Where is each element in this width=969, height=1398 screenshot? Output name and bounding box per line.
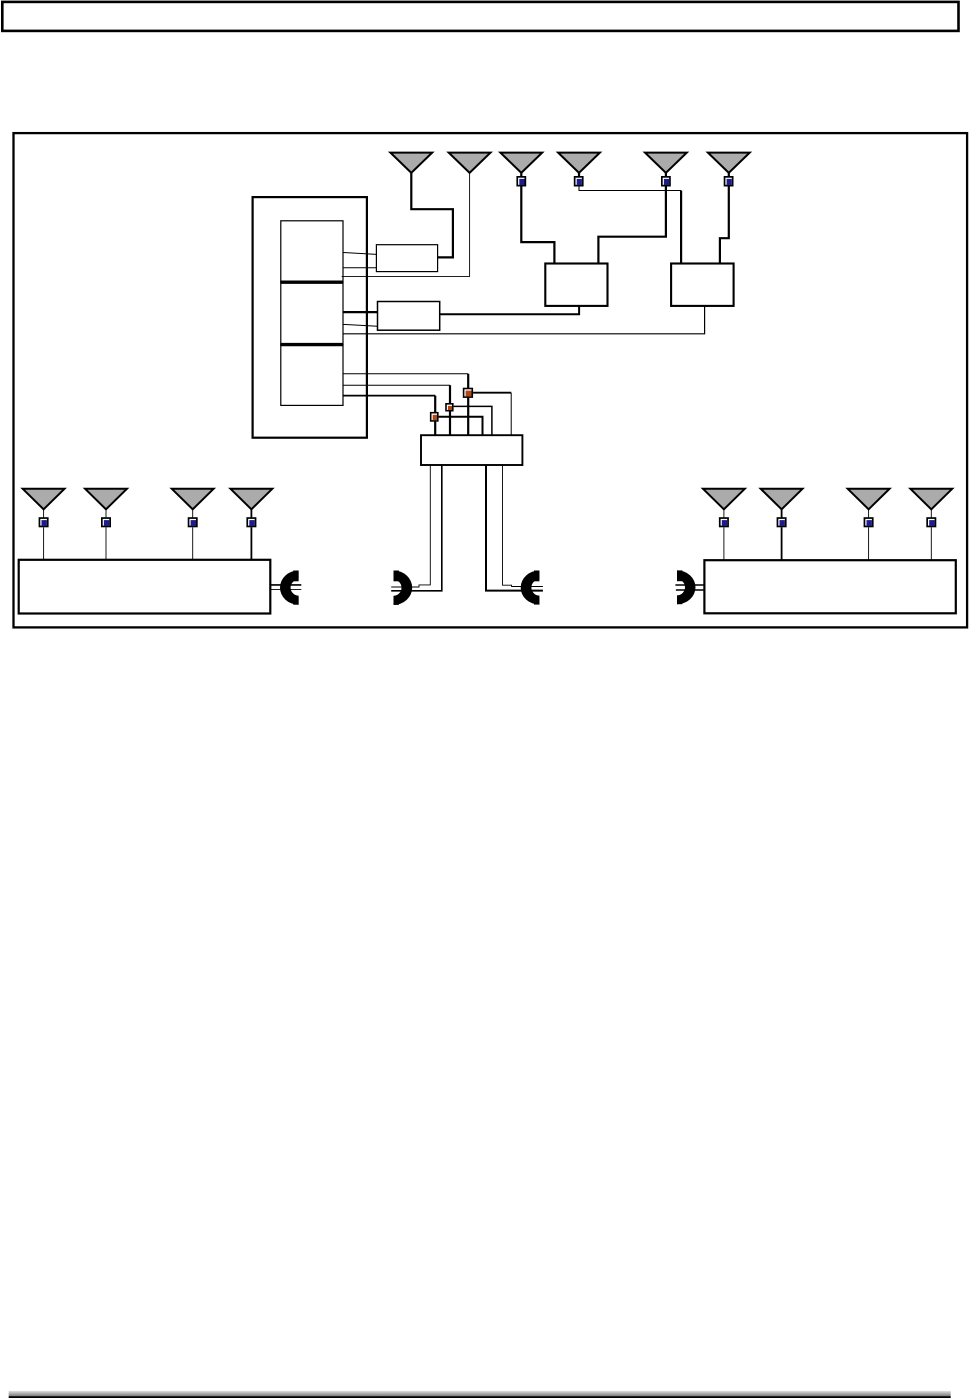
wire right-box feed lower: [676, 589, 705, 591]
TMA T3 under ANT3: [517, 177, 525, 186]
wire antenna R4 stem upper: [930, 508, 932, 518]
horn antenna left-box: [280, 571, 299, 605]
coupler K2: [446, 404, 453, 411]
TMA L4: [247, 518, 255, 526]
wire K1 tap: [439, 417, 483, 436]
TMA R1: [720, 518, 728, 526]
TMA L1: [39, 518, 47, 526]
horn antenna mid-left: [394, 571, 413, 605]
horn antenna right-box: [677, 570, 696, 604]
transceiver module TRX2: [281, 282, 343, 344]
wire antenna R2 stem upper: [781, 508, 783, 518]
antenna R2: [761, 489, 803, 510]
wire TRX3 run1 to coupler K3: [343, 373, 468, 375]
wire ANT3 stem: [520, 172, 522, 177]
wire ANT4 stem: [578, 172, 580, 177]
footer horizontal rule: [9, 1391, 951, 1398]
antenna ANT3: [500, 153, 542, 173]
wire ANT5 stem: [665, 172, 667, 177]
antenna R3: [848, 489, 890, 510]
wire antenna L2 stem lower: [105, 527, 107, 560]
wire TRX2 to B upper: [343, 311, 377, 313]
antenna ANT6: [708, 153, 750, 173]
wire TRX1 to A lower: [343, 267, 376, 269]
TMA R4: [927, 518, 935, 526]
wire E out4: [503, 465, 543, 587]
wire ANT5 to C: [598, 186, 666, 263]
wire ANT6 stem: [728, 172, 730, 177]
wire through coupler K2: [449, 385, 451, 435]
wire antenna L3 stem upper: [192, 508, 194, 518]
header title box: [2, 2, 958, 31]
wire ANT3 to C: [521, 186, 554, 263]
diagram frame: [14, 133, 968, 627]
wire K3 tap: [473, 392, 511, 394]
wire antenna R1 stem upper: [723, 508, 725, 518]
wire antenna L1 stem upper: [43, 508, 45, 518]
thick separator TRX1/TRX2: [280, 281, 343, 284]
wire left-box feed lower: [270, 588, 301, 590]
BTS cabinet outer box: [253, 197, 367, 438]
wire antenna R3 stem lower: [868, 527, 870, 560]
antenna L2: [85, 489, 127, 510]
distribution box E: [421, 435, 522, 465]
transceiver module TRX3: [281, 345, 343, 406]
wire TRX1 to A upper: [343, 253, 376, 255]
RX unit C: [545, 264, 607, 306]
antenna ANT1: [390, 153, 432, 173]
wire left-box feed upper: [270, 584, 301, 586]
antenna R1: [703, 489, 745, 510]
wire ANT2 to TRX1: [342, 172, 470, 277]
wire ANT6 to D: [720, 186, 729, 263]
coupler K1: [431, 413, 438, 421]
wire antenna L4 stem upper: [250, 508, 252, 518]
wire E out2: [391, 465, 442, 591]
wire TRX2 to RX unit D: [343, 306, 704, 334]
wire antenna L3 stem lower: [192, 527, 194, 560]
wire through coupler K1: [434, 396, 436, 436]
coupler K3: [464, 389, 473, 398]
antenna ANT2: [449, 153, 491, 173]
wire antenna L2 stem upper: [105, 508, 107, 518]
horn antenna mid-right: [521, 571, 540, 605]
remote unit left box: [19, 560, 271, 614]
wire antenna R3 stem upper: [868, 508, 870, 518]
thick separator TRX2/TRX3: [280, 343, 343, 346]
wire B to RX unit C: [440, 306, 579, 314]
wire antenna L4 stem lower: [250, 527, 252, 560]
antenna L3: [172, 489, 214, 510]
wire E out3: [486, 465, 543, 591]
antenna L1: [23, 489, 65, 510]
RX unit D: [671, 264, 734, 306]
wire antenna R1 stem lower: [723, 527, 725, 560]
remote unit right box: [704, 560, 955, 613]
wire through coupler K3: [467, 374, 469, 436]
antenna ANT5: [645, 153, 687, 173]
TMA R3: [864, 518, 872, 526]
combiner box B: [378, 302, 440, 331]
wire ANT1 to A: [411, 172, 453, 258]
wire K3 tap drop: [510, 393, 512, 436]
wire antenna R4 stem lower: [930, 527, 932, 560]
wire TRX3 run3 to coupler K1: [343, 395, 435, 397]
wire antenna L1 stem lower: [43, 527, 45, 560]
TMA T4 under ANT4: [575, 177, 583, 186]
TMA L3: [189, 518, 197, 526]
wire ANT4 to D drop: [680, 191, 682, 264]
antenna L4: [231, 489, 273, 510]
TMA L2: [102, 518, 110, 526]
wire E out1: [391, 465, 430, 587]
TMA T5 under ANT5: [662, 177, 670, 186]
TMA T6 under ANT6: [725, 177, 733, 186]
wire K2 tap: [454, 406, 492, 435]
transceiver module TRX1: [281, 221, 343, 282]
wire TRX2 to B lower: [343, 324, 377, 326]
wire right-box feed upper: [675, 584, 704, 586]
TMA R2: [777, 518, 785, 526]
wire ANT4 to D: [579, 186, 681, 190]
antenna R4: [910, 489, 952, 510]
duplexer box A: [376, 245, 437, 272]
wire antenna R2 stem lower: [781, 527, 783, 560]
antenna ANT4: [558, 153, 600, 173]
wire TRX3 run2 to coupler K2: [343, 384, 450, 386]
